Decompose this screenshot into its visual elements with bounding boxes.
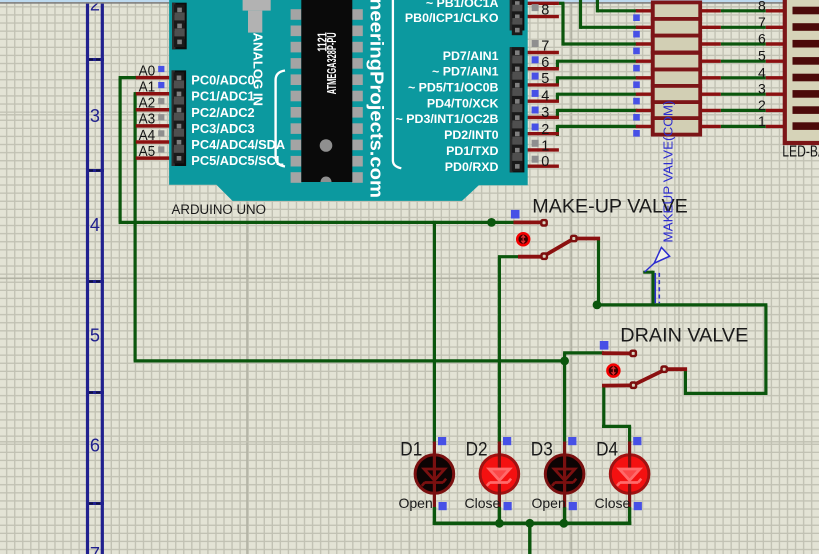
svg-text:6: 6 [541, 55, 549, 71]
svg-text:A5: A5 [139, 144, 156, 160]
svg-text:1: 1 [758, 113, 766, 129]
svg-text:Open: Open [532, 495, 566, 511]
svg-text:7: 7 [90, 544, 100, 554]
svg-text:PC0/ADC0: PC0/ADC0 [191, 73, 254, 88]
svg-text:4: 4 [541, 88, 549, 104]
svg-text:D2: D2 [466, 439, 488, 460]
svg-text:3: 3 [541, 105, 549, 121]
svg-text:MAKEUP VALVE(COM): MAKEUP VALVE(COM) [662, 101, 676, 243]
svg-text:PC3/ADC3: PC3/ADC3 [191, 121, 254, 136]
svg-text:PD2/INT0: PD2/INT0 [444, 128, 499, 142]
svg-text:LED-BARG: LED-BARG [782, 144, 819, 161]
svg-text:3: 3 [90, 106, 100, 126]
svg-text:0: 0 [541, 154, 549, 170]
svg-text:A2: A2 [139, 96, 156, 112]
svg-text:7: 7 [541, 39, 549, 55]
svg-text:~ PD5/T1/OC0B: ~ PD5/T1/OC0B [408, 80, 499, 94]
svg-text:PB0/ICP1/CLKO: PB0/ICP1/CLKO [405, 11, 499, 25]
svg-text:2: 2 [758, 97, 766, 113]
svg-text:5: 5 [90, 326, 100, 346]
svg-text:PC4/ADC4/SDA: PC4/ADC4/SDA [191, 137, 285, 152]
svg-text:PD1/TXD: PD1/TXD [446, 144, 498, 158]
svg-text:D4: D4 [596, 439, 618, 460]
svg-text:A0: A0 [139, 63, 156, 79]
svg-text:4: 4 [90, 215, 100, 235]
svg-text:A4: A4 [139, 128, 156, 144]
svg-text:PD4/T0/XCK: PD4/T0/XCK [427, 97, 499, 111]
svg-text:A3: A3 [139, 112, 156, 128]
svg-text:Close: Close [595, 495, 631, 511]
svg-text:Close: Close [465, 495, 501, 511]
svg-text:6: 6 [90, 436, 100, 456]
svg-text:~ PD7/AIN1: ~ PD7/AIN1 [432, 65, 499, 79]
svg-text:A1: A1 [139, 80, 156, 96]
svg-text:4: 4 [758, 64, 766, 80]
svg-text:PD0/RXD: PD0/RXD [445, 160, 499, 174]
svg-text:neeringProjects.com: neeringProjects.com [367, 0, 387, 198]
svg-text:1: 1 [541, 138, 549, 154]
svg-text:~ PD3/INT1/OC2B: ~ PD3/INT1/OC2B [396, 112, 499, 126]
svg-text:PD7/AIN1: PD7/AIN1 [443, 49, 499, 63]
svg-text:~ PB1/OC1A: ~ PB1/OC1A [426, 0, 499, 10]
svg-text:8: 8 [758, 0, 766, 13]
svg-text:ATMEGA328P-PU: ATMEGA328P-PU [324, 32, 339, 94]
svg-text:DRAIN VALVE: DRAIN VALVE [620, 325, 748, 346]
svg-text:7: 7 [758, 14, 766, 30]
svg-text:3: 3 [758, 81, 766, 97]
svg-text:5: 5 [758, 48, 766, 64]
svg-text:5: 5 [541, 71, 549, 87]
svg-text:PC1/ADC1: PC1/ADC1 [191, 89, 254, 104]
svg-text:2: 2 [541, 122, 549, 138]
svg-text:PC5/ADC5/SCL: PC5/ADC5/SCL [191, 153, 284, 168]
svg-text:ARDUINO UNO: ARDUINO UNO [172, 202, 267, 218]
svg-text:D3: D3 [531, 439, 553, 460]
svg-text:6: 6 [758, 31, 766, 47]
svg-text:D1: D1 [400, 439, 422, 460]
svg-text:8: 8 [541, 3, 549, 19]
svg-text:Open: Open [399, 495, 433, 511]
svg-text:PC2/ADC2: PC2/ADC2 [191, 105, 254, 120]
